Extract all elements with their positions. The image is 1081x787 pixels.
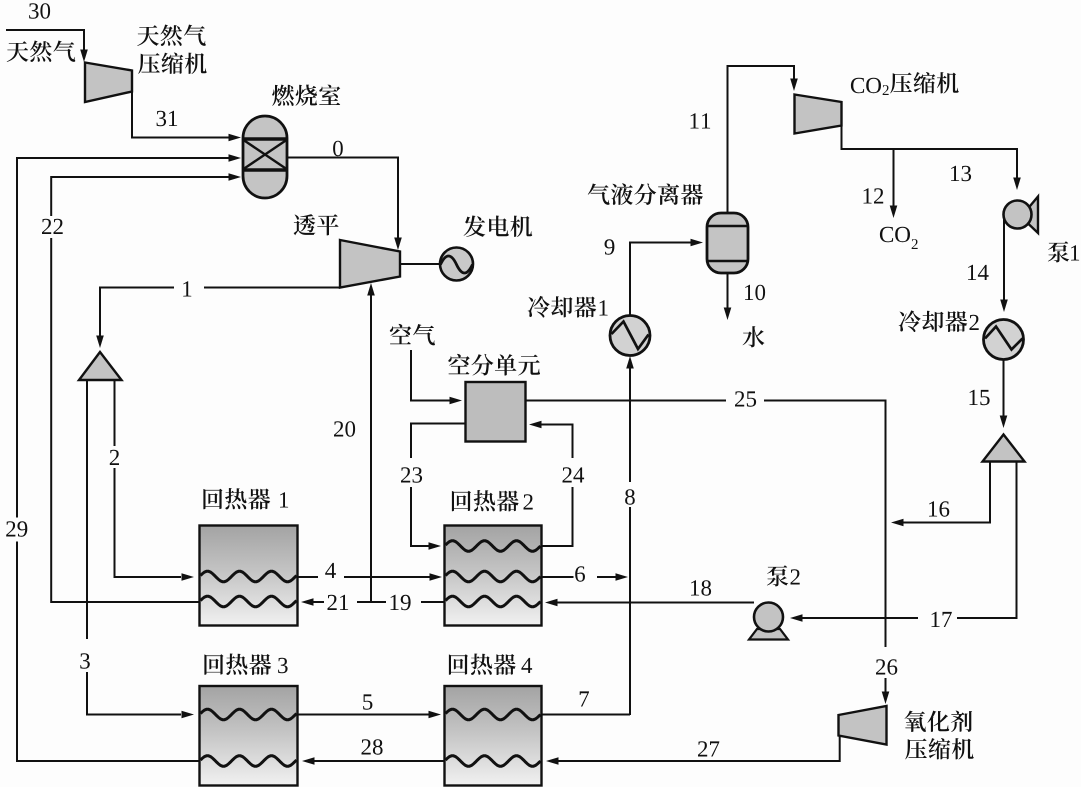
label 空分单元 — [448, 354, 469, 374]
wire: stream 28 regenerator4 to regenerator3 — [312, 760, 444, 762]
heat exchanger: regenerator 3 (回热器3) — [200, 686, 298, 786]
label 泵1 — [1048, 241, 1069, 262]
wire: stream 0 chamber to turbine — [287, 158, 398, 244]
vessel: combustion chamber (燃烧室) — [243, 116, 287, 198]
wire: air inlet (空气) — [411, 350, 455, 401]
label 燃烧室 — [272, 85, 294, 106]
wire: stream 25/26 oxidant line to oxidant compressor — [526, 401, 886, 699]
air separation unit box (空分单元) — [466, 382, 526, 442]
wire: stream 1 turbine exhaust to splitter — [100, 288, 340, 341]
node label 21 — [328, 595, 337, 610]
node label 30 — [29, 3, 38, 18]
node label 11 — [691, 113, 699, 128]
compressor: oxidant compressor (氧化剂压缩机) — [839, 706, 887, 745]
wire: stream 9 cooler1 to separator — [630, 243, 693, 316]
generator (发电机) — [440, 248, 473, 281]
label 空气 — [390, 324, 411, 344]
label 回热器3 — [204, 654, 223, 675]
wire: stream 29 regenerator3 to chamber — [17, 158, 229, 761]
node label 9 — [605, 239, 615, 254]
node label 17 — [932, 612, 940, 627]
wire: stream 17 mixer to pump2 — [797, 462, 1017, 619]
wire: stream 5 regenerator3 to regenerator4 — [298, 714, 429, 716]
node label 6 — [575, 566, 585, 581]
wire: stream 19/21 regenerator2 to regenerator1 — [311, 601, 444, 603]
wire: stream 24 regenerator2 to ASU — [539, 425, 573, 547]
label 冷却器1 — [528, 296, 550, 318]
wire: stream 10 water drain — [727, 273, 729, 313]
label 透平 — [294, 214, 316, 235]
wire: stream 23 ASU to regenerator2 — [411, 424, 466, 547]
wire: stream 15 cooler2 to mixer — [1003, 360, 1005, 422]
label 气液分离器 — [588, 184, 610, 205]
label 回热器2 — [452, 491, 471, 512]
wire: stream 13 CO2 compressor to pump1 — [842, 126, 1018, 184]
wire: stream 30 natural gas inlet — [6, 30, 84, 55]
node label 18 — [691, 580, 699, 595]
label 水 (water) — [743, 326, 765, 347]
node label 28 — [362, 739, 371, 754]
wire: stream 4 regenerator1 to regenerator2 — [298, 576, 430, 578]
splitter triangle (left) — [79, 352, 122, 380]
node label 7 — [580, 691, 589, 706]
node label 19 — [391, 595, 399, 610]
wire: stream 22 regenerator1 to chamber — [51, 177, 229, 602]
node label 14 — [968, 265, 976, 280]
wire: stream 31 compressor to combustion chamber — [132, 92, 229, 138]
node label 12 — [864, 188, 872, 203]
heat exchanger: regenerator 4 (回热器4) — [445, 686, 542, 786]
cooler 1 (冷却器1) — [610, 316, 650, 356]
wire: turbine-generator shaft — [400, 263, 440, 265]
wire: stream 11 separator to CO2 compressor — [728, 66, 795, 213]
node label 10 — [745, 285, 753, 300]
label 冷却器2 — [899, 310, 921, 332]
node label 31 — [157, 111, 167, 126]
node label 20 — [334, 421, 343, 436]
node label 13 — [951, 166, 959, 181]
node label 0 — [333, 141, 343, 157]
turbine (透平) — [340, 240, 400, 288]
node label 22 — [42, 219, 51, 234]
label 氧化剂压缩机 — [905, 711, 926, 732]
cooler 2 (冷却器2) — [984, 320, 1024, 360]
node label 29 — [6, 521, 15, 536]
mixer triangle (right) — [983, 435, 1025, 462]
label 天然气压缩机 — [137, 25, 159, 46]
heat exchanger: regenerator 2 (回热器2) — [445, 526, 542, 626]
node label 15 — [970, 390, 978, 405]
node label 8 — [625, 489, 635, 505]
heat exchanger: regenerator 1 (回热器1) — [200, 526, 298, 626]
pump 2 (泵2) — [749, 629, 788, 640]
wire: stream 6 regenerator2 to line 8 — [542, 576, 616, 578]
label 回热器1 — [203, 489, 222, 510]
label 泵2 — [767, 565, 788, 586]
wire: stream 16 mixer to oxidant line — [899, 462, 990, 523]
pump 1 (泵1) — [1028, 197, 1039, 234]
label CO2 product — [880, 227, 893, 242]
label 天然气 (natural gas inlet) — [7, 41, 29, 62]
wire: stream 8 to cooler1 — [629, 363, 631, 715]
node label 25 — [735, 391, 744, 406]
node label 27 — [698, 741, 707, 756]
node label 16 — [929, 501, 937, 516]
wire: stream 14 pump1 to cooler2 — [1003, 218, 1005, 305]
node label 4 — [325, 563, 336, 578]
node label 24 — [563, 467, 572, 482]
wire: stream 18 pump2 to regenerator2 — [551, 602, 754, 604]
label 发电机 — [464, 216, 486, 238]
node label 2 — [110, 450, 119, 465]
wire: stream 27 oxidant compressor to regenerator4 — [556, 736, 840, 762]
label CO2压缩机 — [851, 78, 864, 93]
node label 5 — [363, 694, 372, 709]
vessel: gas-liquid separator (气液分离器) — [707, 213, 748, 273]
wire: stream 12 CO2 product — [893, 149, 895, 207]
node label 26 — [876, 659, 885, 674]
compressor: CO2 compressor (CO2压缩机) — [795, 95, 842, 134]
compressor: natural gas compressor (天然气压缩机) — [85, 63, 132, 103]
wire: stream 3 splitter to regenerator 3 — [87, 380, 181, 715]
wire: stream 2 splitter to regenerator 1 — [115, 380, 182, 577]
node label 1 — [183, 281, 191, 296]
label 回热器4 — [449, 654, 468, 675]
node label 3 — [80, 653, 90, 668]
node label 23 — [401, 467, 410, 482]
wire: stream 20 turbine coolant from line 19 — [370, 290, 372, 602]
wire: stream 7 regenerator4 to line 8 — [542, 714, 630, 717]
